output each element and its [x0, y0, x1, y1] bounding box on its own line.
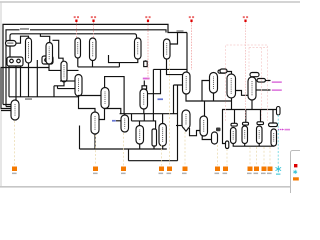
wire y85 stub	[174, 85, 183, 114]
cluster bottoms step wire	[233, 144, 274, 147]
red dash drop 3	[147, 22, 149, 80]
wire V23 bottom	[231, 98, 233, 110]
wire into V18	[176, 125, 182, 127]
cyan snowflake sink	[276, 166, 282, 172]
valve above V11	[143, 81, 145, 86]
block boundary rounded top	[10, 34, 137, 57]
pump box P2	[42, 56, 53, 64]
wire to V20	[204, 101, 206, 116]
red source marker 2	[91, 16, 96, 22]
cyan dashed drop	[277, 115, 279, 165]
wire into V8	[60, 80, 75, 82]
column V24	[248, 77, 256, 100]
wire V9 bottom	[99, 109, 105, 120]
wire V13 to header	[170, 33, 178, 45]
red source marker 1	[74, 16, 79, 22]
wire bottom header	[80, 126, 167, 150]
column V11	[140, 89, 148, 109]
column V13	[164, 39, 171, 59]
column C4	[271, 129, 277, 146]
wire V24 bottom	[251, 100, 253, 110]
pump circle	[45, 58, 49, 62]
pump box P1	[7, 57, 23, 66]
wire lid to V23	[226, 72, 232, 75]
wire long right header	[222, 109, 277, 111]
lid C2	[243, 122, 249, 125]
column V10	[91, 112, 99, 134]
cone bottom V18	[184, 128, 189, 131]
column C2	[242, 126, 248, 144]
bus wires into drum V4	[1, 66, 21, 111]
wire feed bends	[105, 109, 156, 130]
wire long vertical	[129, 85, 178, 161]
red source marker 5	[243, 16, 248, 22]
wire V3 bottom	[54, 82, 75, 97]
legend orange rect	[293, 177, 299, 180]
frame level2	[6, 30, 166, 107]
magenta arrow right of C4	[278, 129, 283, 131]
lid C1	[231, 123, 237, 126]
wire corner	[148, 69, 161, 93]
pill right of V24	[257, 79, 266, 83]
wire V21 top feed	[162, 114, 164, 124]
lid C3	[257, 122, 264, 125]
red dash drop 2	[93, 22, 95, 38]
legend box	[291, 151, 307, 196]
label 12B blue	[158, 98, 164, 100]
column V23	[227, 74, 236, 98]
page top border	[0, 1, 300, 3]
wire V2 top	[40, 34, 63, 61]
red source marker 3	[145, 16, 150, 22]
lid left of V23	[220, 69, 227, 73]
column V20	[200, 116, 208, 136]
wire A bottom	[139, 144, 141, 149]
dark lid above S1	[216, 128, 221, 132]
wire V24 product arrow	[256, 89, 271, 91]
column C3	[257, 126, 263, 144]
cluster A vessel	[136, 126, 144, 145]
pump circle	[10, 59, 14, 63]
column V2	[46, 43, 53, 65]
column V8	[75, 75, 82, 97]
wire blue stub	[116, 120, 121, 122]
pink dashed region	[225, 45, 267, 121]
column V3	[61, 61, 67, 82]
wire V10 bottom	[94, 134, 96, 149]
wire pill to product arrow	[266, 80, 271, 82]
column V6	[90, 38, 97, 61]
wire V7 bottom	[109, 55, 138, 63]
wire feed to V1	[16, 36, 29, 43]
page bottom border	[0, 186, 300, 188]
wire box to V9 top	[105, 77, 125, 114]
wire V1 bottom	[28, 63, 30, 97]
wire V11 bottom header	[120, 109, 178, 114]
vessel B small	[152, 129, 157, 146]
pill above C4	[269, 123, 278, 127]
orange sink squares	[12, 167, 273, 172]
cream drop lines to sinks	[15, 60, 271, 166]
wire V14 bottom	[186, 94, 232, 101]
wire V13 bottom	[167, 59, 183, 75]
red dash drop 5	[245, 22, 247, 120]
small vessel S1	[212, 132, 218, 144]
wire V5 V6 bottoms	[78, 58, 120, 67]
column V1	[26, 38, 32, 63]
label FRC magenta	[143, 78, 150, 80]
column V18	[182, 110, 190, 129]
wire V20 bottom to S1	[202, 136, 211, 140]
page left border	[0, 2, 2, 187]
wire main header	[9, 96, 78, 98]
legend red square	[294, 164, 297, 167]
column C1	[231, 128, 237, 144]
feed pill	[6, 41, 17, 47]
valve rect below V7	[144, 61, 148, 66]
wire riser to S2	[223, 110, 226, 144]
drum lid V15	[218, 70, 226, 73]
drum V4	[11, 100, 19, 120]
red dash drop 4	[191, 22, 193, 70]
column V12	[121, 115, 129, 132]
wire V18 right step	[190, 128, 201, 136]
wire B bottom	[153, 146, 155, 149]
column V21	[159, 124, 166, 147]
legend cyan snowflake	[293, 170, 297, 174]
label 2B blue	[112, 120, 116, 122]
product label magenta	[272, 81, 282, 83]
red dash drop 1	[75, 22, 77, 38]
main flowsheet frame top	[3, 24, 187, 104]
sink labels	[12, 173, 272, 175]
wire V8 to V9	[78, 96, 101, 113]
column V14	[183, 72, 191, 94]
lid above V24	[250, 73, 259, 77]
wire into V14	[186, 33, 188, 73]
wire riser	[36, 60, 38, 97]
wire V21 bottom	[162, 146, 164, 149]
column V5	[75, 38, 81, 58]
wire y69 header	[153, 69, 187, 120]
column V7	[135, 38, 142, 59]
pump circle	[17, 59, 21, 63]
red source marker 4	[189, 16, 194, 22]
column V15	[210, 73, 218, 94]
cluster risers	[235, 110, 274, 124]
wire V15 bottom	[213, 93, 215, 101]
wire V12 top stub	[124, 114, 126, 115]
column V9	[101, 88, 109, 109]
product label magenta	[272, 89, 282, 91]
wire V2 bottom to left edge	[1, 64, 79, 109]
wire into V15 left	[202, 81, 210, 102]
wire V23 to V24	[236, 91, 249, 96]
pill end of header	[277, 107, 281, 116]
small pill S2	[226, 141, 229, 149]
